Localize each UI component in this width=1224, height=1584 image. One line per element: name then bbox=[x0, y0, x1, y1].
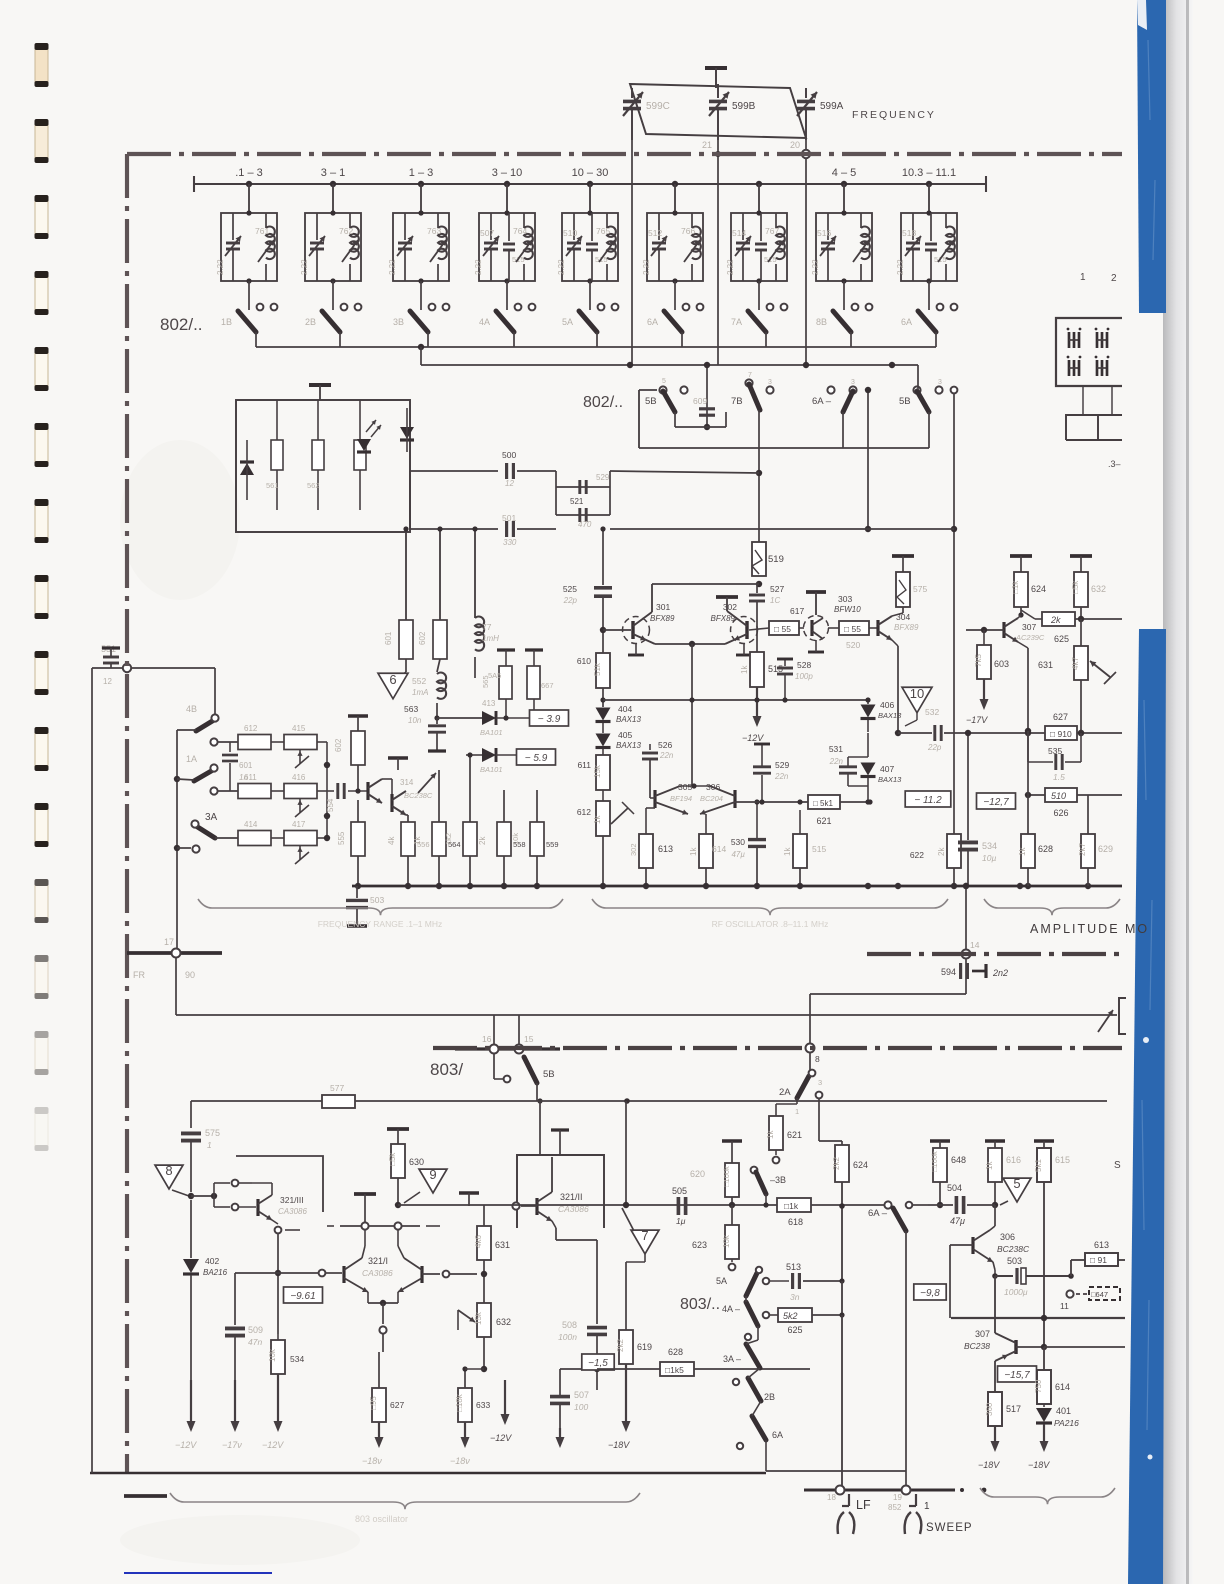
resistor 612 row bbox=[238, 735, 271, 750]
svg-text:□1k5: □1k5 bbox=[665, 1365, 684, 1375]
svg-text:4B: 4B bbox=[186, 704, 197, 714]
capacitor 525 bbox=[602, 529, 604, 585]
svg-text:630: 630 bbox=[409, 1157, 424, 1167]
svg-text:1k: 1k bbox=[740, 665, 749, 674]
svg-text:BAX13: BAX13 bbox=[878, 711, 902, 720]
svg-text:2.22: 2.22 bbox=[811, 259, 820, 275]
jack SWEEP bbox=[915, 1494, 917, 1506]
svg-text:12: 12 bbox=[103, 677, 112, 686]
svg-text:□95: □95 bbox=[369, 1396, 378, 1410]
wire 321/III emitter down bbox=[277, 1234, 279, 1334]
svg-text:100p: 100p bbox=[795, 672, 813, 681]
rail junction x800 bbox=[797, 883, 803, 889]
rail junction x470 bbox=[467, 883, 473, 889]
sweep line left segment bbox=[804, 1489, 955, 1492]
switch 7B row2 bbox=[745, 379, 752, 386]
rail junction x504 bbox=[501, 883, 507, 889]
wire bus to tank 3 bbox=[420, 184, 422, 213]
svg-text:PA216: PA216 bbox=[1054, 1418, 1079, 1428]
svg-text:1000μ: 1000μ bbox=[1004, 1287, 1028, 1297]
left bus vertical bbox=[176, 730, 178, 953]
resistor 515 bbox=[750, 652, 764, 687]
ground T above pair left bbox=[354, 1192, 376, 1196]
capacitor 506 100n bbox=[587, 1326, 607, 1330]
wire row1 bus down bbox=[420, 347, 422, 365]
border left dash-dot line bbox=[125, 154, 129, 1473]
switch 4A under tank 4 bbox=[496, 311, 514, 332]
svg-text:6A –: 6A – bbox=[868, 1208, 888, 1219]
tank 2 bus junction bbox=[330, 181, 336, 187]
resistor 601b column bbox=[405, 529, 407, 620]
wire solid at nodes 16-15 bbox=[455, 1047, 560, 1050]
wire cap594 elbow bbox=[810, 993, 966, 995]
svg-text:12: 12 bbox=[505, 479, 514, 488]
tank 8 junction top bbox=[841, 210, 846, 215]
border mid dash-dot line right of node 14 bbox=[867, 952, 1122, 956]
resistor 519 bbox=[752, 542, 766, 576]
resistor 618 1k bbox=[777, 1198, 811, 1212]
wire 5k1 row bbox=[735, 801, 808, 803]
resistor 615b bbox=[793, 834, 807, 868]
binder hole 11 bbox=[35, 803, 49, 847]
diode 407 BAX13 bbox=[861, 763, 876, 776]
switch 2B under tank 2 bbox=[322, 311, 340, 332]
svg-text:525: 525 bbox=[563, 584, 577, 594]
oscillator ground rail bbox=[352, 885, 1122, 888]
svg-text:802/..: 802/.. bbox=[583, 394, 623, 411]
transistor 306 BC238C bbox=[971, 1237, 974, 1254]
diode 405 BAX13 bbox=[602, 723, 604, 733]
rail junction x603 bbox=[600, 883, 606, 889]
svg-text:2.22: 2.22 bbox=[557, 259, 566, 275]
tank 8 junction bottom bbox=[841, 278, 846, 283]
tank 3 box bbox=[393, 213, 449, 281]
svg-text:−17V: −17V bbox=[966, 715, 988, 725]
triangle tap 5 bbox=[1003, 1178, 1031, 1202]
blue band texture bbox=[1142, 40, 1155, 1430]
svg-text:615: 615 bbox=[1055, 1155, 1070, 1165]
svg-text:1k: 1k bbox=[689, 847, 698, 856]
svg-text:620: 620 bbox=[690, 1169, 705, 1179]
tank 4 bus junction bbox=[504, 181, 510, 187]
capacitor 526 bbox=[649, 744, 651, 750]
svg-text:302: 302 bbox=[629, 843, 638, 856]
resistor 617 horizontal bbox=[749, 628, 769, 630]
svg-text:520: 520 bbox=[846, 640, 860, 650]
svg-text:301: 301 bbox=[656, 602, 670, 612]
svg-text:□18k: □18k bbox=[455, 1393, 464, 1412]
rail junction x868 bbox=[865, 883, 871, 889]
svg-text:CA3086: CA3086 bbox=[362, 1268, 393, 1278]
svg-text:632: 632 bbox=[496, 1317, 511, 1327]
tank 2 box bbox=[305, 213, 361, 281]
svg-text:22p: 22p bbox=[927, 743, 942, 752]
svg-text:614: 614 bbox=[712, 844, 726, 854]
svg-text:5A: 5A bbox=[562, 317, 573, 327]
svg-text:AC239C: AC239C bbox=[1015, 633, 1045, 642]
svg-text:1.5: 1.5 bbox=[1053, 772, 1065, 782]
wire 599A down bbox=[805, 140, 807, 365]
resistor 628 1k5 bbox=[660, 1362, 694, 1376]
binder hole 8 bbox=[35, 575, 49, 619]
svg-text:10k: 10k bbox=[268, 1348, 277, 1362]
svg-text:−12V: −12V bbox=[490, 1433, 512, 1443]
wire row2 top bbox=[421, 364, 918, 366]
arrow -12V under 632 bbox=[504, 1380, 506, 1417]
transistor 321/II block box bbox=[517, 1155, 604, 1228]
wire right riser top bbox=[917, 365, 919, 390]
svg-text:613: 613 bbox=[1094, 1240, 1109, 1250]
svg-text:765: 765 bbox=[596, 226, 610, 236]
svg-text:764: 764 bbox=[513, 226, 527, 236]
svg-text:507: 507 bbox=[480, 228, 494, 238]
svg-text:612: 612 bbox=[244, 724, 258, 733]
svg-text:4k6: 4k6 bbox=[474, 1235, 483, 1248]
wire tank 3 to switch bbox=[420, 281, 422, 310]
triangle tap 8 bbox=[155, 1165, 183, 1189]
capacitor 527 bbox=[756, 584, 758, 593]
tank 8 bus junction bbox=[841, 181, 847, 187]
svg-text:5: 5 bbox=[662, 378, 666, 385]
svg-text:619: 619 bbox=[637, 1342, 652, 1352]
svg-text:556: 556 bbox=[417, 840, 430, 849]
tank 1 bus junction bbox=[246, 181, 252, 187]
brace section 3 bbox=[984, 899, 1120, 915]
capacitor 503 1000u bbox=[993, 1262, 995, 1270]
svg-text:6A: 6A bbox=[901, 317, 912, 327]
rail junction x646 bbox=[643, 883, 649, 889]
svg-text:612: 612 bbox=[577, 807, 591, 817]
svg-text:LF: LF bbox=[856, 1498, 871, 1512]
svg-text:622: 622 bbox=[910, 850, 924, 860]
svg-text:□100k: □100k bbox=[930, 1151, 939, 1172]
resistor 602b column bbox=[439, 529, 441, 620]
wire border node to switch 4B bbox=[131, 667, 215, 669]
capacitor 529b bbox=[753, 765, 771, 768]
svg-text:555: 555 bbox=[337, 831, 346, 845]
tank 5 bus junction bbox=[587, 181, 593, 187]
svg-text:1: 1 bbox=[207, 1140, 212, 1150]
pot row2 input contact bbox=[210, 787, 217, 794]
binder hole 12 bbox=[35, 879, 49, 923]
wire bottom-left outer vertical bbox=[91, 668, 93, 1473]
svg-text:609: 609 bbox=[693, 396, 707, 406]
wire pot bus to coupling cap bbox=[327, 790, 334, 792]
svg-text:21: 21 bbox=[702, 140, 712, 150]
pot row1 input contact bbox=[210, 738, 217, 745]
svg-text:−17ν: −17ν bbox=[222, 1440, 242, 1450]
svg-text:516: 516 bbox=[817, 228, 831, 238]
svg-text:599A: 599A bbox=[820, 101, 844, 112]
wire pair collectors up bbox=[680, 785, 712, 787]
svg-text:□ 55: □ 55 bbox=[844, 624, 861, 634]
svg-text:761: 761 bbox=[255, 226, 269, 236]
svg-text:BA101: BA101 bbox=[480, 765, 503, 774]
transistor 321/III block box bbox=[236, 1156, 323, 1212]
svg-text:617: 617 bbox=[790, 606, 804, 616]
svg-text:534: 534 bbox=[290, 1354, 304, 1364]
svg-text:BF194: BF194 bbox=[670, 794, 692, 803]
tank 7 junction top bbox=[756, 210, 761, 215]
resistor 624b bbox=[835, 1145, 849, 1182]
brace bottom right bbox=[980, 1488, 1115, 1504]
svg-text:□ 910: □ 910 bbox=[1050, 729, 1072, 739]
svg-text:3 – 10: 3 – 10 bbox=[492, 167, 523, 179]
svg-text:626: 626 bbox=[1053, 808, 1068, 818]
svg-text:413: 413 bbox=[482, 699, 496, 708]
transistor 305 bbox=[653, 790, 656, 808]
svg-text:−12V: −12V bbox=[262, 1440, 284, 1450]
svg-text:554: 554 bbox=[326, 798, 335, 812]
switch 6A under tank 6 bbox=[664, 311, 682, 332]
resistor 520 horizontal bbox=[828, 627, 839, 629]
svg-text:406: 406 bbox=[880, 700, 894, 710]
node 17 spur bbox=[127, 951, 222, 955]
svg-text:526: 526 bbox=[658, 740, 672, 750]
svg-text:2k7: 2k7 bbox=[1078, 843, 1087, 856]
wire 513 right riser bbox=[841, 1315, 843, 1490]
potentiometer 415 row bbox=[284, 735, 317, 750]
binder hole 14 bbox=[35, 1031, 49, 1075]
tank 3 inductor 763 bbox=[437, 213, 439, 228]
resistor 556 below pair bbox=[401, 822, 415, 856]
svg-text:BA216: BA216 bbox=[203, 1268, 228, 1277]
transistor 306b bbox=[733, 790, 736, 808]
sweep line dots bbox=[960, 1488, 964, 1492]
svg-text:.1 – 3: .1 – 3 bbox=[235, 167, 263, 179]
node on border for 551 bbox=[123, 664, 131, 672]
diode box outline bbox=[236, 400, 410, 532]
rail junction x439 bbox=[436, 883, 442, 889]
binder hole 4 bbox=[35, 271, 49, 315]
svg-text:□5k: □5k bbox=[388, 1152, 397, 1166]
svg-text:−1,5: −1,5 bbox=[588, 1358, 608, 1369]
svg-text:.3–: .3– bbox=[1108, 459, 1121, 469]
diode 414 bbox=[482, 748, 496, 762]
svg-text:627: 627 bbox=[1053, 712, 1068, 722]
svg-text:1: 1 bbox=[1080, 272, 1086, 283]
emitter 304 down bbox=[892, 640, 898, 646]
transistor 307 BC238 bbox=[1014, 1340, 1017, 1354]
svg-text:□ 55: □ 55 bbox=[774, 624, 791, 634]
svg-text:51k: 51k bbox=[593, 662, 602, 676]
svg-text:306: 306 bbox=[1000, 1232, 1015, 1242]
svg-text:15k: 15k bbox=[593, 764, 602, 778]
svg-text:□ 91: □ 91 bbox=[1090, 1255, 1107, 1265]
binder hole 2 bbox=[35, 119, 49, 163]
svg-text:529: 529 bbox=[596, 473, 610, 482]
variable capacitor 599A bbox=[805, 88, 807, 98]
inductor 552 bbox=[437, 673, 446, 699]
svg-text:632: 632 bbox=[1091, 584, 1106, 594]
svg-text:□100k: □100k bbox=[722, 1166, 731, 1187]
svg-text:10k: 10k bbox=[722, 1234, 731, 1248]
node 18 LF bbox=[836, 1486, 845, 1495]
svg-text:305: 305 bbox=[678, 782, 692, 792]
svg-text:2.22: 2.22 bbox=[474, 259, 483, 275]
resistor 565 bbox=[497, 648, 515, 651]
svg-text:515: 515 bbox=[812, 844, 826, 854]
tank 3 junction top bbox=[418, 210, 423, 215]
resistor 621 5k1 bbox=[808, 795, 840, 809]
resistor 626 510 bbox=[1045, 788, 1077, 802]
svg-text:3A: 3A bbox=[205, 812, 218, 823]
svg-text:4k7: 4k7 bbox=[1071, 657, 1080, 670]
wire tank 7 to switch bbox=[758, 281, 760, 310]
rail junction x1088 bbox=[1085, 883, 1091, 889]
emitter rail 301-302 bbox=[655, 643, 725, 645]
svg-text:509: 509 bbox=[248, 1325, 263, 1335]
switch 2A bbox=[809, 1053, 811, 1072]
svg-text:508: 508 bbox=[562, 1320, 577, 1330]
svg-text:4 – 5: 4 – 5 bbox=[832, 167, 856, 179]
svg-text:6A: 6A bbox=[772, 1430, 783, 1440]
tank 7 fixed capacitor bbox=[760, 213, 762, 241]
diode 402 bbox=[190, 1200, 192, 1258]
wire 5B riser to 321/II bbox=[539, 1101, 541, 1155]
voltage box -1.5 bbox=[582, 1354, 614, 1370]
svg-text:8B: 8B bbox=[816, 317, 827, 327]
svg-text:621: 621 bbox=[816, 816, 831, 826]
tank bus line bbox=[194, 183, 986, 185]
svg-text:633: 633 bbox=[476, 1400, 490, 1410]
wire y1205 main bbox=[398, 1204, 888, 1206]
resistor 615 with ground bbox=[1034, 1139, 1054, 1142]
svg-text:303: 303 bbox=[838, 594, 852, 604]
resistor 625 5k2 bbox=[770, 1314, 778, 1316]
border top dash-dot line bbox=[127, 152, 1122, 156]
svg-text:416: 416 bbox=[292, 773, 306, 782]
svg-text:762: 762 bbox=[339, 226, 353, 236]
rail junction x358 bbox=[355, 883, 361, 889]
svg-text:3: 3 bbox=[851, 379, 855, 386]
svg-text:2k2: 2k2 bbox=[616, 1339, 625, 1352]
svg-text:8: 8 bbox=[165, 1163, 172, 1178]
diode box inner element 2 bbox=[317, 400, 319, 510]
switch 3B under tank 3 bbox=[410, 311, 428, 332]
svg-text:2n2: 2n2 bbox=[992, 968, 1008, 978]
capacitor 530 bbox=[748, 838, 766, 841]
wire tank 8 to switch bbox=[843, 281, 845, 310]
wire tank 1 to switch bbox=[248, 281, 250, 310]
tank 6 junction top bbox=[672, 210, 677, 215]
resistor 613 bbox=[639, 834, 653, 868]
svg-text:5k1: 5k1 bbox=[1034, 1159, 1043, 1172]
svg-text:5: 5 bbox=[1013, 1176, 1020, 1191]
resistor 622 bbox=[947, 834, 961, 868]
tank 5 junction bottom bbox=[587, 278, 592, 283]
rail junction x954 bbox=[951, 883, 957, 889]
resistor 627 910 bbox=[1025, 730, 1031, 736]
switch 6A mid bbox=[884, 1201, 891, 1208]
tank 3 bus junction bbox=[418, 181, 424, 187]
svg-text:22n: 22n bbox=[659, 751, 674, 760]
capacitor 509 47u bbox=[234, 1273, 236, 1325]
binder hole 7 bbox=[35, 499, 49, 543]
wire bus to tank 4 bbox=[506, 184, 508, 213]
svg-text:321/III: 321/III bbox=[280, 1195, 304, 1205]
arrow -12V left 803 bbox=[190, 1380, 192, 1424]
svg-text:529: 529 bbox=[775, 760, 789, 770]
svg-text:602: 602 bbox=[418, 631, 427, 645]
capacitor 534 10u bbox=[967, 733, 969, 840]
switch 7A under tank 7 bbox=[748, 311, 766, 332]
tank 4 inductor 764 bbox=[523, 213, 525, 228]
switch 5A under tank 5 bbox=[579, 311, 597, 332]
svg-text:514: 514 bbox=[732, 228, 746, 238]
svg-text:100n: 100n bbox=[558, 1332, 577, 1342]
tank 6 bus junction bbox=[672, 181, 678, 187]
wire right tall riser bbox=[953, 390, 955, 845]
svg-text:402: 402 bbox=[205, 1256, 219, 1266]
svg-text:552: 552 bbox=[412, 676, 426, 686]
svg-text:90: 90 bbox=[185, 970, 195, 980]
binder hole 13 bbox=[35, 955, 49, 999]
wire y795 bbox=[1028, 794, 1122, 796]
base wire 301 bbox=[603, 629, 631, 631]
svg-text:407: 407 bbox=[880, 764, 894, 774]
border mid dash-dot line through node 8 bbox=[433, 1046, 1122, 1050]
svg-text:BFX89: BFX89 bbox=[894, 623, 919, 632]
resistor 577 feedback bbox=[322, 1095, 355, 1108]
switch 5B at node 15 bbox=[524, 1057, 537, 1083]
tank 2 inductor 762 bbox=[349, 213, 351, 228]
svg-text:− 3.9: − 3.9 bbox=[538, 714, 561, 725]
svg-text:16: 16 bbox=[482, 1034, 492, 1044]
svg-text:3n: 3n bbox=[790, 1292, 800, 1302]
svg-text:527: 527 bbox=[770, 584, 784, 594]
svg-text:2A: 2A bbox=[779, 1087, 791, 1098]
voltage box -9.8 bbox=[914, 1284, 946, 1300]
svg-text:3: 3 bbox=[818, 1078, 822, 1087]
svg-text:10 – 30: 10 – 30 bbox=[572, 167, 609, 179]
rail junction x537 bbox=[534, 883, 540, 889]
svg-text:1A: 1A bbox=[186, 754, 197, 764]
voltage box -5.9 bbox=[517, 749, 556, 765]
svg-text:518: 518 bbox=[902, 228, 916, 238]
wire 306 emitter node down bbox=[994, 1276, 996, 1333]
resistor 560 column bbox=[530, 822, 544, 856]
transistor 314 buffer bbox=[390, 794, 393, 812]
svg-text:575: 575 bbox=[913, 584, 927, 594]
rail junction x408 bbox=[405, 883, 411, 889]
switch row1 bus junction bbox=[418, 344, 424, 350]
tank 1 box bbox=[221, 213, 277, 281]
svg-text:611: 611 bbox=[577, 760, 591, 770]
svg-text:−18ν: −18ν bbox=[362, 1456, 382, 1466]
svg-text:2k: 2k bbox=[1050, 615, 1061, 625]
diode 551 in box bbox=[240, 463, 254, 475]
svg-text:7: 7 bbox=[748, 372, 752, 379]
svg-text:−15,7: −15,7 bbox=[1004, 1370, 1030, 1381]
transistor 313 buffer bbox=[366, 782, 369, 800]
switch 1B under tank 1 bbox=[238, 311, 256, 332]
svg-text:507: 507 bbox=[574, 1390, 589, 1400]
svg-text:47n: 47n bbox=[248, 1337, 262, 1347]
triangle tap 10 bbox=[902, 687, 932, 713]
switch 5B row2 second bbox=[913, 386, 920, 393]
capacitor 521 in network bbox=[578, 508, 581, 522]
node 15 bbox=[515, 1045, 524, 1054]
switch 8B under tank 8 bbox=[833, 311, 851, 332]
svg-text:628: 628 bbox=[668, 1347, 683, 1357]
svg-text:621: 621 bbox=[787, 1130, 802, 1140]
frequency caps box bbox=[630, 84, 806, 138]
tank 4 trimmer capacitor 507 bbox=[490, 213, 492, 240]
arrow -12V below 515 bbox=[756, 687, 758, 719]
tank 8 box bbox=[816, 213, 872, 281]
svg-text:528: 528 bbox=[797, 660, 811, 670]
